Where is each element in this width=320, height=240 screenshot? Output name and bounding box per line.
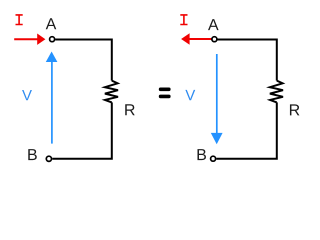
node B (right) — [211, 156, 216, 161]
label I (left circuit current) — [16, 15, 23, 25]
label B (left) — [28, 149, 37, 160]
label A (right) — [208, 19, 219, 30]
voltage arrow V (right, pointing down) — [211, 54, 223, 144]
wire node A to resistor top (right) — [218, 40, 277, 81]
wire node A to resistor top (left) — [55, 40, 112, 81]
wire resistor bottom to node B (left) — [52, 102, 112, 158]
resistor R (left) zigzag — [105, 81, 118, 103]
node A (left) — [50, 37, 55, 42]
label V (right) — [185, 90, 195, 100]
resistor R (right) zigzag — [270, 81, 283, 103]
node B (left) — [46, 156, 51, 161]
label R (right) — [290, 104, 300, 115]
wire resistor bottom to node B (right) — [216, 102, 276, 158]
label A (left) — [46, 18, 57, 29]
label R (left) — [125, 104, 135, 115]
label I (right circuit current) — [180, 15, 187, 25]
equals sign — [159, 88, 171, 99]
current arrow I (left, pointing right into node A) — [14, 34, 45, 45]
current arrow I (right, pointing left out of node A) — [181, 33, 211, 45]
label B (right) — [197, 149, 206, 160]
node A (right) — [212, 37, 217, 42]
label V (left) — [22, 90, 32, 100]
voltage arrow V (left, pointing up) — [46, 52, 58, 144]
